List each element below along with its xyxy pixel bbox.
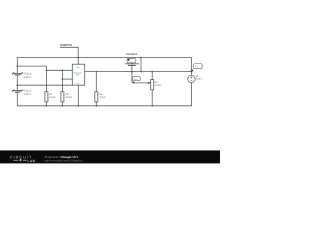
svg-text:Plagmatist / Charger v0.1: Plagmatist / Charger v0.1	[45, 155, 79, 159]
svg-text:http://circuitlab.com/c2vf4qpb: http://circuitlab.com/c2vf4qpb3x	[45, 159, 83, 162]
svg-text:CELL1: CELL1	[23, 72, 31, 75]
svg-text:10 kΩ: 10 kΩ	[99, 96, 106, 99]
svg-text:NiMH500: NiMH500	[126, 53, 138, 56]
svg-text:USBPTB: USBPTB	[60, 43, 72, 47]
svg-text:10 kΩ: 10 kΩ	[49, 96, 56, 99]
svg-text:1.28 V: 1.28 V	[23, 76, 31, 79]
svg-text:OA1: OA1	[76, 74, 80, 77]
svg-text:10 kΩ: 10 kΩ	[155, 84, 162, 87]
svg-text:5Vr: 5Vr	[195, 65, 198, 68]
svg-text:1.28 V: 1.28 V	[23, 93, 31, 96]
svg-text:5.00 V: 5.00 V	[196, 78, 203, 81]
svg-text:10 kΩ: 10 kΩ	[66, 96, 73, 99]
svg-text:LAB: LAB	[27, 159, 35, 163]
svg-text:CELL2: CELL2	[23, 89, 31, 92]
